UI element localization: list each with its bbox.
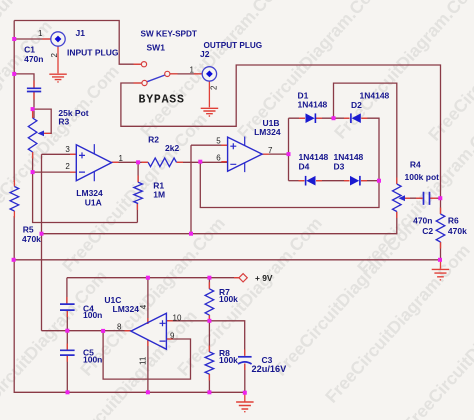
svg-text:470n: 470n <box>24 54 43 64</box>
D3 lead stubs <box>344 180 367 182</box>
svg-text:LM324: LM324 <box>254 127 281 137</box>
resistor R2 <box>148 158 176 167</box>
connector J1 <box>51 32 65 46</box>
svg-text:4: 4 <box>139 304 148 309</box>
diode D4 <box>306 176 316 186</box>
wire <box>42 330 131 332</box>
SW1 pin stubs <box>134 64 178 83</box>
svg-text:J2: J2 <box>200 49 210 59</box>
svg-text:R3: R3 <box>58 117 69 127</box>
power terminal +9V <box>239 274 247 282</box>
svg-text:LM324: LM324 <box>113 304 140 314</box>
svg-text:470k: 470k <box>22 234 41 244</box>
svg-text:1: 1 <box>190 65 195 74</box>
wire <box>170 73 203 75</box>
svg-text:100n: 100n <box>83 354 102 364</box>
resistor R7 <box>205 289 214 315</box>
diode D3 <box>350 176 360 186</box>
resistor R4 (100k pot) <box>393 184 406 212</box>
C3 lead stubs <box>244 350 246 402</box>
wire <box>244 364 246 393</box>
C1 lead stubs <box>33 81 35 100</box>
capacitor C2 <box>424 192 430 205</box>
wire <box>430 197 441 199</box>
wire <box>14 38 51 40</box>
op-amp U1A <box>76 144 111 181</box>
svg-text:11: 11 <box>139 356 148 365</box>
wire <box>33 109 52 133</box>
svg-text:+ 9V: + 9V <box>255 273 273 283</box>
wire <box>33 152 138 223</box>
svg-text:2: 2 <box>50 53 59 58</box>
svg-text:D2: D2 <box>351 100 362 110</box>
wire <box>190 145 192 234</box>
svg-text:R6: R6 <box>448 215 459 225</box>
wire <box>33 92 35 118</box>
ground (R6/C2) <box>432 269 450 279</box>
wire <box>208 278 210 289</box>
wire <box>200 162 379 208</box>
wire <box>191 144 228 146</box>
wire <box>334 83 397 184</box>
svg-text:2k2: 2k2 <box>165 143 179 153</box>
wire <box>136 204 138 223</box>
svg-text:C2: C2 <box>422 226 433 236</box>
svg-text:BYPASS: BYPASS <box>139 93 185 106</box>
capacitor C5 <box>60 350 75 355</box>
resistor R8 <box>205 352 214 374</box>
pin numbers and node labels <box>38 29 273 365</box>
J2 pin 1 stub <box>194 73 202 75</box>
svg-text:U1A: U1A <box>85 197 102 207</box>
wire <box>316 180 350 182</box>
svg-text:D4: D4 <box>299 162 310 172</box>
connector J2 <box>202 67 216 81</box>
R1 lead stubs <box>136 176 139 211</box>
wire <box>262 153 288 155</box>
wire <box>42 212 397 234</box>
svg-text:5: 5 <box>216 137 221 146</box>
D2 lead stubs <box>344 117 367 119</box>
C2 lead stubs <box>416 197 437 199</box>
wire <box>66 311 68 331</box>
wire <box>66 355 68 392</box>
resistor R1 <box>134 182 143 203</box>
wire <box>14 21 141 65</box>
svg-text:9: 9 <box>170 332 175 341</box>
wire <box>121 65 441 214</box>
svg-text:INPUT PLUG: INPUT PLUG <box>67 47 119 57</box>
wire <box>13 21 15 183</box>
wire <box>404 197 423 199</box>
wire <box>361 118 379 181</box>
capacitor C4 <box>60 304 75 310</box>
capacitor C1 <box>27 88 41 91</box>
svg-text:3: 3 <box>65 145 70 154</box>
resistor R3 (25k pot) <box>28 118 44 152</box>
J2 pin 2 lead <box>208 81 210 107</box>
svg-text:OUTPUT PLUG: OUTPUT PLUG <box>204 41 263 50</box>
R6 lead stubs <box>440 208 442 269</box>
resistor R6 <box>436 214 445 242</box>
D4 lead stubs <box>299 180 323 182</box>
R2 lead stubs <box>142 161 184 163</box>
svg-text:470n: 470n <box>413 215 432 225</box>
wire <box>147 278 149 324</box>
wire <box>66 331 68 350</box>
svg-text:7: 7 <box>268 146 273 155</box>
diode D2 <box>351 113 361 123</box>
wire <box>147 340 149 393</box>
R5 lead stubs <box>13 180 15 218</box>
wire <box>166 321 244 356</box>
svg-text:SW KEY-SPDT: SW KEY-SPDT <box>141 29 197 38</box>
svg-text:8: 8 <box>117 322 122 331</box>
svg-text:100k: 100k <box>219 355 238 365</box>
wire <box>316 117 350 119</box>
svg-text:1N4148: 1N4148 <box>298 100 328 110</box>
R4 lead stubs <box>397 178 410 219</box>
svg-text:1N4148: 1N4148 <box>360 91 390 101</box>
svg-text:2: 2 <box>210 85 219 90</box>
svg-text:1N4148: 1N4148 <box>334 152 364 162</box>
switch SW1 <box>141 62 170 86</box>
C4 lead stubs <box>66 297 68 317</box>
capacitor C3 (electrolytic) <box>238 357 252 364</box>
svg-text:2: 2 <box>65 162 70 171</box>
wire <box>67 277 240 279</box>
svg-text:1M: 1M <box>153 190 165 200</box>
wire <box>288 118 290 181</box>
svg-text:R4: R4 <box>410 160 421 170</box>
svg-text:R5: R5 <box>23 225 34 235</box>
wire <box>137 162 139 182</box>
svg-text:J1: J1 <box>76 28 86 38</box>
wire <box>33 171 77 173</box>
svg-text:470k: 470k <box>448 226 467 236</box>
wire <box>289 117 306 119</box>
wire <box>14 216 245 392</box>
svg-text:SW1: SW1 <box>147 42 166 52</box>
wire <box>208 315 210 352</box>
svg-text:10: 10 <box>173 314 182 323</box>
svg-text:D3: D3 <box>334 162 345 172</box>
R7 lead stubs <box>208 282 210 321</box>
svg-text:1: 1 <box>119 154 124 163</box>
ground (C3) <box>236 402 254 412</box>
svg-text:22u/16V: 22u/16V <box>252 364 288 374</box>
op-amp U1C <box>131 313 167 349</box>
wire <box>14 259 440 261</box>
R8 lead stubs <box>208 346 210 381</box>
wire <box>41 154 43 330</box>
diode D1 <box>306 113 316 123</box>
resistor R5 <box>10 187 19 212</box>
svg-text:R2: R2 <box>148 134 159 144</box>
wire <box>112 161 149 163</box>
U1B pin stubs <box>221 145 269 162</box>
D1 lead stubs <box>299 117 322 119</box>
ground (J1) <box>49 74 67 82</box>
op-amp U1B <box>228 137 263 173</box>
svg-text:100k pot: 100k pot <box>405 172 440 182</box>
+9V terminal stub <box>234 277 240 279</box>
J1 pin 2 lead <box>57 47 59 74</box>
wire <box>440 242 442 260</box>
U1A pin stubs <box>70 154 119 172</box>
svg-text:1: 1 <box>38 29 43 38</box>
J1 pin 1 stub <box>43 38 51 40</box>
wire <box>66 278 68 304</box>
wire <box>42 153 77 155</box>
svg-text:100k: 100k <box>219 294 238 304</box>
ground (J2) <box>201 108 219 116</box>
R3 lead stubs <box>33 111 51 159</box>
wire <box>14 74 34 88</box>
wire <box>208 374 210 392</box>
wire <box>289 180 305 182</box>
wire <box>361 180 379 182</box>
svg-text:6: 6 <box>216 154 221 163</box>
wire <box>103 331 190 379</box>
svg-text:100n: 100n <box>83 310 102 320</box>
C5 lead stubs <box>66 344 68 362</box>
U1C pin stubs <box>125 318 173 346</box>
svg-text:1N4148: 1N4148 <box>299 152 329 162</box>
wire <box>177 161 228 163</box>
svg-text:C1: C1 <box>24 45 35 55</box>
